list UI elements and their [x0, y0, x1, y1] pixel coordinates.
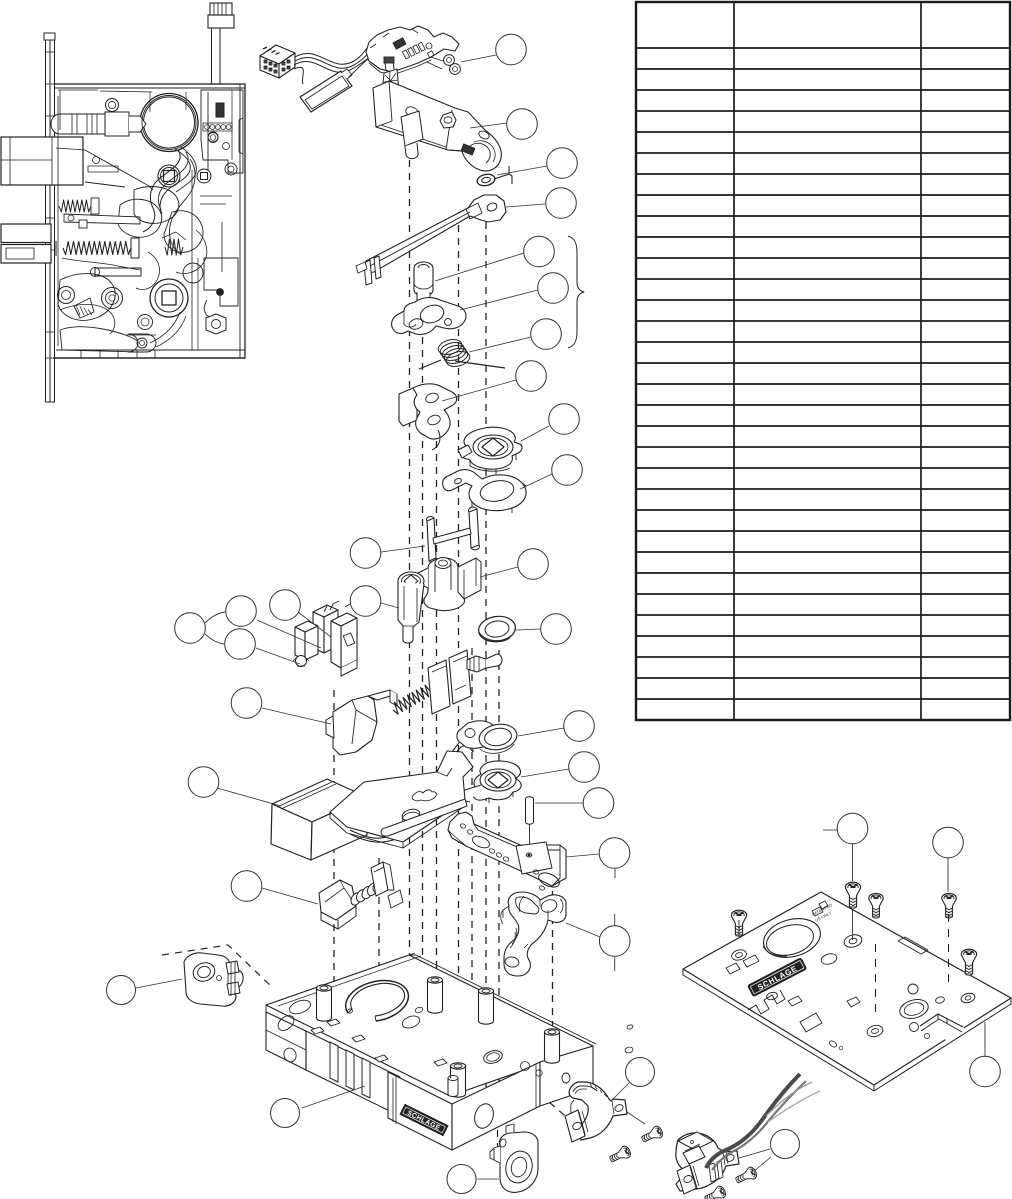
- cable clamp: tab hole and hatch: [725, 1153, 735, 1162]
- part: C-shaped deadbolt lever (row 26): [504, 892, 566, 976]
- lock body: latch spring (mid left): [59, 200, 91, 212]
- lock body: hex bolt bottom right: [206, 314, 226, 334]
- callout circle 7 (torsion spring): [531, 319, 562, 350]
- part: cylinder bracket (row 12): [424, 558, 465, 611]
- base plate: back lip lines: [266, 955, 596, 1103]
- dashed guide segment below cylinder cam: [497, 1104, 499, 1152]
- leader line to callout 10: [520, 474, 552, 489]
- leader line to callout 1: [461, 55, 496, 62]
- part: micro-switch assembly: [313, 605, 338, 617]
- lock body: circle below hub: [138, 315, 153, 330]
- dashed guide line E x=472: [471, 648, 473, 1062]
- callout circle 28 (cylinder cam): [447, 1165, 476, 1194]
- micro-switch: terminals: [324, 601, 350, 612]
- part: lever arm (long flat link): [366, 195, 506, 273]
- base plate: floor holes: [288, 998, 313, 1017]
- base plate: small floor marks: [414, 1006, 423, 1013]
- dashed guide segment near latch bracket: [162, 945, 271, 986]
- base plate: SCHLAGE logo plate: [400, 1104, 448, 1135]
- base plate: stub post front: [448, 1078, 458, 1097]
- lock body: horizontal pin rod: [95, 268, 141, 276]
- callout circle 3 (E-ring): [547, 148, 578, 179]
- part: motor block (big box): [272, 779, 367, 822]
- chassis plate: oval hole: [401, 807, 421, 822]
- assembled lock body: case outline: [53, 84, 245, 358]
- lock body: claw from hub to bottom: [150, 312, 180, 343]
- cover plate (bottom right): main outline: [683, 892, 1011, 1085]
- deadbolt guard: hatch ticks: [590, 1084, 607, 1097]
- callout circle 34 (latch bracket): [107, 976, 136, 1005]
- lock body: S-lever sweep: [160, 149, 190, 214]
- micro-switch: plunger ball: [296, 656, 307, 667]
- slider: left foot: [326, 716, 334, 738]
- cover plate: SCHLAGE logo plate: [748, 958, 807, 997]
- part: keyhole washer (row 20): [457, 721, 497, 748]
- wire: ribbon cable from plug to PCB: [295, 48, 367, 64]
- part: cam hub with square hole (row 9): [460, 427, 522, 469]
- solenoid: plunger cup inner: [470, 143, 490, 163]
- lock body: right vertical detail: [191, 170, 193, 350]
- callout circle 26 (C-lever): [599, 926, 630, 957]
- lock body: bottom edge: [56, 349, 245, 351]
- screw near deadbolt guard 2: [608, 1145, 633, 1166]
- lock body: long sweeping tail to bottom: [169, 159, 195, 254]
- part: spindle with square hole (row 13): [398, 572, 424, 590]
- base plate: right end wall: [540, 1046, 593, 1106]
- scalloped cam: left hook tab: [460, 785, 481, 802]
- base plate: front wall (tall, with logo): [388, 1072, 452, 1150]
- lock body: curved pawl shapes center: [118, 199, 162, 237]
- lock body: armature plate right side: [207, 92, 209, 170]
- leader line to callout 8: [442, 380, 516, 401]
- dashed guide segment near deadbolt guard: [500, 1060, 570, 1120]
- mounting bracket: oval slot and holes: [471, 834, 492, 850]
- component: heat-shrink sensor on cable: [300, 71, 352, 112]
- cable clamp: top plate: [678, 1132, 713, 1150]
- lock body: hatched wedge: [74, 298, 94, 318]
- callout circle 11 (H-link): [350, 538, 381, 569]
- leader line to callout 5: [435, 253, 524, 281]
- part: H-link connector: [427, 518, 436, 561]
- leader line to callout 9: [521, 426, 549, 441]
- lock body: interior diagonal lines upper: [85, 182, 125, 187]
- callout circle 12 (cylinder bracket): [518, 549, 549, 580]
- cable clamp: jaw cutout: [683, 1146, 705, 1164]
- cover plate: holes and slots: [730, 948, 747, 962]
- cover plate: screw 1 (left): [731, 910, 746, 936]
- lock body: faceplate strip: [46, 39, 51, 402]
- lock body: lower-left lever blob: [58, 274, 115, 321]
- lock body: top-left screw boss: [106, 99, 119, 112]
- solenoid: foot block with tail: [401, 111, 423, 146]
- callout circle 19 (slider): [231, 688, 262, 719]
- chassis plate: wavy cutout: [412, 790, 436, 801]
- cable clamp: legs: [709, 1163, 716, 1182]
- base plate: left end wall: [266, 1012, 306, 1070]
- callout circle 5 (bushing): [524, 236, 555, 267]
- dashed guide line I x=379: [378, 858, 380, 998]
- mounting bracket: right block with pin hole: [516, 842, 552, 874]
- leader line to callout 12: [480, 567, 518, 577]
- part: cam bracket plate with holes: [392, 298, 466, 335]
- lock body: deadbolt (protruding left): [1, 224, 51, 243]
- part: bushing post: [414, 262, 433, 274]
- lock body: boss far left: [58, 287, 75, 304]
- brace } grouping rows 5-7: [568, 236, 584, 348]
- deadbolt guard: bottom pad: [565, 1110, 585, 1142]
- lock body: right bracket assembly: [204, 258, 238, 306]
- tick above callout 26: [614, 914, 616, 927]
- leader line to callout 2: [470, 123, 507, 128]
- leader line to callout 28: [477, 1178, 499, 1180]
- leader line to callout 27: [302, 1086, 365, 1108]
- base plate: standoff posts: [317, 988, 332, 1021]
- base plate: floor square holes: [311, 1027, 324, 1034]
- cover plate: screw 2: [845, 882, 860, 908]
- part: screw spring assembly: [393, 680, 442, 714]
- callout circle 6 (cam bracket): [538, 273, 569, 304]
- lock body: interior extra details: [100, 91, 152, 92]
- leader line to callout 3: [497, 166, 547, 175]
- callout circle 30 (cable clamp): [771, 1130, 800, 1159]
- tick below callout 26: [614, 957, 616, 971]
- torsion spring legs: [419, 360, 441, 369]
- leader line to callout 14: [516, 629, 541, 630]
- callout circle 10 (ring lever): [552, 455, 583, 486]
- callout circle 23 (mounting bracket): [599, 838, 630, 869]
- lock body: right column vertical: [221, 222, 223, 272]
- leader line to callout 26: [566, 923, 600, 937]
- callout circle 31 (cover screws top): [837, 813, 868, 844]
- worm gear: shaft with discs: [349, 891, 363, 907]
- dashed leaders under screws: [875, 944, 877, 1016]
- screw near cable clamp 2: [703, 1185, 728, 1199]
- part: cable clamp (bottom, callout 30): [676, 1133, 739, 1191]
- cam hub: left wing tab: [458, 445, 472, 458]
- cover plate: edge notches: [748, 990, 785, 1014]
- leader line to callout 13: [381, 603, 399, 608]
- cover plate: countersunk hole for screw 5: [960, 992, 976, 1004]
- cylinder bracket: left ear: [411, 568, 428, 588]
- motor block: wire bracket to chassis: [350, 800, 456, 838]
- solenoid: dark slot: [461, 144, 475, 155]
- dashed guide line B x=422: [422, 272, 424, 1012]
- leader lines cover plate callouts: [823, 829, 837, 831]
- leader line to callout 23: [566, 854, 599, 857]
- cover plate: thickness edges: [683, 969, 1011, 1091]
- dashed guide line D x=458: [458, 212, 460, 1040]
- callout circle 22 (pin): [583, 788, 614, 819]
- deadbolt guard: tab hole: [614, 1103, 624, 1112]
- leader line to callout 19: [262, 708, 331, 724]
- cover plate: cylinder hole (double ellipse): [759, 913, 825, 964]
- part: lock slider block: [333, 696, 377, 755]
- dashed guide line H x=334: [333, 690, 335, 1008]
- leader line to callout 4: [506, 204, 545, 207]
- screw near cable clamp 1: [734, 1166, 759, 1187]
- lock body: cylinder bore circle: [140, 94, 198, 152]
- lock body: hub ring with square hole (upper): [158, 165, 180, 187]
- leader line to callout 6: [460, 290, 538, 310]
- lock body: lower rail bar: [64, 214, 140, 224]
- callout circle 33 (cover plate): [970, 1056, 1001, 1087]
- lock body: secondary spring: [165, 239, 183, 255]
- motor block: tab with hole: [363, 799, 381, 819]
- base plate: slot fingers: [330, 1042, 338, 1082]
- leader line to callout 25: [262, 888, 318, 904]
- dashed guide line J x=552: [552, 878, 554, 1032]
- part: solenoid assembly (exploded row 2): [382, 69, 399, 95]
- wires from cable clamp: [706, 1074, 800, 1168]
- lock body: armature plate outline: [201, 90, 243, 173]
- leader line to callout 7: [469, 337, 531, 352]
- dashed guide line F x=486: [485, 196, 487, 1088]
- leader line to callout 20: [518, 728, 564, 736]
- leader lines to callout 30: [739, 1149, 770, 1158]
- callout circle 25 (worm gear): [231, 871, 262, 902]
- lock body: torx screw: [197, 169, 211, 183]
- mounting bracket: bottom oval hole: [537, 870, 562, 890]
- screw near deadbolt guard 1: [640, 1125, 665, 1146]
- lock body: small circles right: [208, 132, 218, 142]
- base plate: right front wall with oval hole: [452, 1062, 540, 1150]
- part: bushing ring (row 14): [477, 614, 517, 644]
- cover plate: right-bottom notch cutout: [921, 1015, 966, 1041]
- solenoid: coil cap: [404, 105, 420, 119]
- solenoid: nut: [440, 112, 456, 128]
- lock body: main hub with square hole: [150, 279, 188, 317]
- tick below callout 23: [614, 869, 616, 878]
- lock body: main diagonal linkage: [85, 150, 153, 190]
- callout circle 1 (PCB): [496, 34, 527, 65]
- part: locking piece (hook bracket): [399, 388, 417, 426]
- cover plate: screw 4: [942, 893, 956, 918]
- callout circle 14 (bushing ring): [541, 614, 572, 645]
- leader line to callout 29: [612, 1083, 629, 1100]
- lock body: latch bolt head (protruding left): [1, 137, 83, 185]
- part: push rod under chassis: [381, 799, 467, 836]
- deadbolt guard: inner strap edges: [573, 1086, 597, 1092]
- callout circle 8 (locking piece): [516, 361, 547, 392]
- part: ring lever (row 10): [443, 470, 526, 511]
- part: scalloped cam with square hole (row 21): [473, 761, 522, 800]
- callout circle 4 (lever arm): [546, 188, 577, 219]
- lock body: wire to top connector: [211, 28, 213, 84]
- callout circle 21 (cam): [569, 752, 600, 783]
- lock body: lower-left linkage curves: [62, 258, 140, 270]
- leader line to callout 11 (left): [381, 546, 425, 552]
- lock body: boss left of hub: [102, 288, 123, 309]
- callout circle 13 (spindle): [350, 586, 381, 617]
- part: bent clip below: [452, 739, 474, 758]
- lock body: oval pad bottom: [128, 334, 156, 352]
- callout circle 20 (keyhole washer): [564, 711, 595, 742]
- cover plate: screw 5 (right): [961, 949, 976, 975]
- part: E-ring retainer clip: [476, 173, 496, 188]
- lock body: inner case border: [58, 90, 60, 346]
- part: worm gear unit (row 25): [319, 880, 356, 920]
- part: torsion spring: [437, 337, 464, 357]
- cylinder bracket: side wing: [458, 558, 481, 599]
- base plate: main floor outline: [266, 955, 593, 1096]
- dashed guide line G x=499: [498, 650, 500, 1098]
- lever arm: forked left end: [364, 260, 372, 285]
- callout circle 17: [225, 629, 256, 660]
- callout circle 9 (cam hub): [549, 404, 580, 435]
- lock body: latch bolt assembly inside case: [51, 114, 105, 134]
- base plate: front-left wall with slots: [306, 1031, 400, 1116]
- part: PCB assembly (exploded row 1): [366, 26, 459, 72]
- dashed guide line C x=436: [436, 428, 438, 1058]
- part: deadbolt guard (bottom right, callout 29): [569, 1082, 627, 1140]
- callout circle 15: [175, 613, 206, 644]
- lock body: S-curve lever (center): [143, 150, 180, 232]
- callout circle 24 (motor): [188, 767, 219, 798]
- pin next to E-ring: [494, 166, 512, 184]
- screw spring: threaded stub and nut: [467, 656, 486, 672]
- brace arcs from callout 15: [205, 612, 225, 623]
- lock body: misc small details: [93, 157, 100, 164]
- worm gear: bracket flag: [371, 862, 388, 896]
- cable clamp: bottom pad: [677, 1165, 697, 1194]
- leader line to callout 22: [535, 802, 583, 804]
- part: latch bracket (bottom left, callout 34): [184, 953, 243, 1006]
- leader line to callout 24: [217, 788, 281, 806]
- lock body: faceplate top cap: [44, 33, 55, 40]
- cover plate: screw 3: [869, 893, 883, 918]
- leader line to callout 21: [521, 769, 569, 777]
- lock body: top connector plug: [208, 15, 234, 28]
- lock body: deadbolt spring (horizontal, long): [63, 242, 131, 255]
- dashed guide line A x=410: [409, 147, 411, 983]
- leader line to callout 34: [136, 979, 182, 988]
- callout circle 29 (deadbolt guard): [626, 1058, 655, 1087]
- latch bracket: jaw teeth: [226, 961, 239, 974]
- lock body: circle upper right of hub: [183, 263, 203, 283]
- worm gear: small foot: [388, 890, 403, 908]
- connector: 8-pin wire harness plug: [260, 45, 295, 64]
- lock body: bottom oval tab: [126, 334, 156, 336]
- lock body: contact row circles: [205, 125, 210, 130]
- part: chassis carrier plate: [330, 751, 473, 842]
- base plate: retaining C-ring: [346, 981, 409, 1021]
- callout circle 18: [270, 590, 301, 621]
- callout circle 32 (cover screws right): [933, 827, 964, 858]
- part: cylinder cam (bottom center, callout 28): [499, 1132, 538, 1192]
- leader lines to callouts 15-18: [257, 620, 321, 648]
- lock body: pawl under hub: [134, 187, 179, 224]
- table: empty parts-list grid (right side): [636, 2, 1010, 720]
- cover plate: countersunk hole top: [843, 933, 863, 949]
- callout circle 2 (solenoid): [507, 109, 538, 140]
- callout circle 27 (base plate): [271, 1099, 300, 1128]
- callout circle 16: [226, 596, 257, 627]
- part: small pin (row 22): [526, 797, 534, 801]
- part: long mounting bracket (row 23): [448, 812, 566, 886]
